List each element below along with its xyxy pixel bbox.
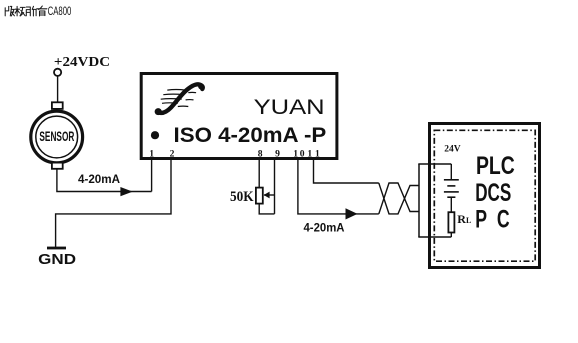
svg-text:1: 1 [149,149,154,160]
sensor top tab [52,102,63,109]
sensor bottom tab [52,163,63,169]
wire [57,76,59,102]
wire pin8 [258,158,260,188]
svg-text:4-20mA: 4-20mA [304,221,345,235]
svg-text:10: 10 [293,149,305,160]
svg-text:CA800: CA800 [48,6,72,18]
wire to battery [418,163,451,165]
copyright text 版权所有 [5,6,47,16]
svg-text:YUAN: YUAN [254,95,325,119]
svg-text:L: L [466,216,471,225]
sensor B1 [31,111,83,163]
svg-text:50K: 50K [230,188,254,205]
svg-text:PLC: PLC [476,152,515,180]
terminal circle [54,69,61,76]
ISO module U1 box [141,74,337,159]
wire pin2 to ground [56,158,171,247]
junction bar [418,164,420,237]
svg-text:GND: GND [38,252,76,268]
wire pin9 [274,158,276,214]
svg-text:DCS: DCS [475,179,511,207]
svg-text:R: R [457,212,466,226]
PLC box outer [430,124,540,268]
svg-text:SENSOR: SENSOR [39,129,74,144]
bullet [151,131,159,139]
svg-text:24V: 24V [444,144,460,155]
svg-text:2: 2 [170,149,175,160]
twisted pair wire B [379,183,419,214]
twisted pair wire A [379,183,419,214]
svg-text:9: 9 [275,149,280,160]
svg-text:4-20mA: 4-20mA [78,172,120,186]
potentiometer 50K [256,188,275,214]
arrow 4-20mA output [346,208,358,219]
wire sensor to pin1 [57,169,152,192]
PLC box inner dashed border [434,130,535,261]
arrow 4-20mA [120,187,132,196]
svg-text:ISO 4-20mA -P: ISO 4-20mA -P [174,124,327,147]
wire pin1 [151,158,153,192]
wire pin10 [298,158,379,214]
wire RL bottom [450,233,452,238]
wire from RL [418,236,451,238]
wire pin11 [314,158,379,183]
svg-text:+24VDC: +24VDC [54,54,110,69]
svg-text:P C: P C [475,206,509,234]
logo script f [155,84,204,115]
resistor RL [448,212,454,232]
ground [47,247,66,250]
svg-text:8: 8 [258,149,263,160]
battery BT1 [444,164,459,212]
